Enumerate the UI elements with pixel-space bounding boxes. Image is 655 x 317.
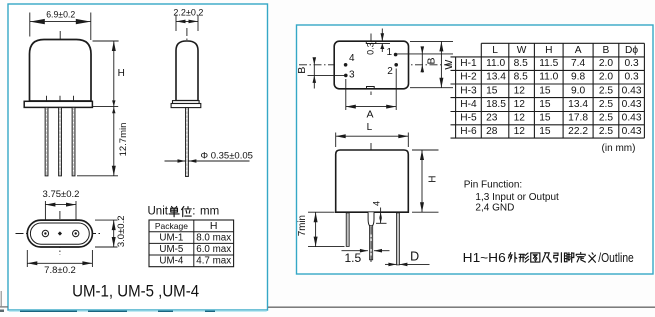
svg-text:1: 1 [387, 47, 393, 58]
can side view body [176, 41, 198, 101]
cropped next-section bar [9, 310, 267, 312]
svg-text:11.0: 11.0 [539, 72, 558, 83]
svg-text:UM-1: UM-1 [159, 232, 183, 243]
top view horizontal centerline [299, 64, 453, 66]
svg-text:12: 12 [514, 113, 526, 124]
side view lead [186, 108, 189, 177]
svg-text:9.8: 9.8 [571, 72, 585, 83]
dimension Φ0.35±0.05 lead diameter [165, 151, 253, 163]
top view vertical centerline [370, 34, 372, 96]
dimension 2.2±0.2 [173, 8, 203, 31]
svg-text:9.0: 9.0 [571, 85, 585, 96]
svg-text:23: 23 [486, 113, 498, 124]
top view top notch [366, 41, 376, 43]
table row H-6 [460, 126, 642, 137]
svg-text:8.5: 8.5 [514, 58, 528, 69]
svg-text:17.8: 17.8 [568, 113, 588, 124]
table row H-3 [460, 85, 642, 96]
dimension B right [397, 46, 453, 72]
side view flange lower [171, 104, 201, 108]
pin 3 [344, 70, 355, 81]
svg-text:1,3 Input or Output: 1,3 Input or Output [475, 192, 559, 203]
dimension 0.3 notch [365, 29, 390, 55]
svg-text:4: 4 [349, 53, 355, 64]
front view lead 1 [45, 107, 48, 175]
svg-text:18.5: 18.5 [486, 99, 506, 110]
svg-text:12.7min: 12.7min [118, 123, 129, 157]
svg-text:W: W [443, 60, 455, 70]
svg-text:0.43: 0.43 [622, 126, 642, 137]
page rule right [268, 306, 655, 308]
front view lead 2 [59, 107, 62, 175]
bottom view outer outline [27, 220, 92, 247]
svg-text:1.5: 1.5 [344, 251, 361, 265]
svg-text:15: 15 [486, 85, 498, 96]
svg-text:H: H [118, 68, 125, 79]
svg-text:0.3: 0.3 [625, 72, 639, 83]
svg-text::: : [192, 205, 195, 217]
svg-text:H: H [210, 220, 218, 232]
table row H-2 [460, 72, 639, 83]
pin 1 [387, 47, 398, 58]
svg-text:3: 3 [349, 70, 355, 81]
H1-H6 dimension table frame [451, 43, 645, 138]
bottom view inner outline [30, 223, 89, 244]
dimension 7min [297, 212, 345, 246]
front view lead 3 [72, 107, 75, 175]
unit label Unit单位: mm [148, 205, 220, 217]
svg-text:6.0 max: 6.0 max [196, 244, 231, 255]
right panel frame [297, 25, 654, 274]
pin function line 2 [475, 203, 514, 214]
dimension A [346, 69, 396, 121]
table row H-5 [460, 113, 642, 124]
svg-text:12: 12 [514, 85, 526, 96]
dimension 7.8±0.2 [27, 250, 92, 276]
svg-text:0.3: 0.3 [365, 42, 375, 55]
svg-text:(in mm): (in mm) [602, 143, 636, 154]
svg-text:D: D [410, 249, 419, 263]
svg-text:mm: mm [200, 205, 219, 217]
svg-text:3.75±0.2: 3.75±0.2 [43, 189, 80, 200]
pin function line 1 [475, 192, 559, 203]
svg-text:UM-4: UM-4 [159, 256, 183, 267]
table header row [492, 45, 638, 56]
svg-text:B: B [296, 67, 308, 74]
svg-text:6.9±0.2: 6.9±0.2 [46, 9, 75, 19]
package table row UM-5 [159, 244, 231, 255]
dimension 3.0±0.2 [95, 215, 127, 247]
svg-text:2.0: 2.0 [599, 72, 613, 83]
table row H-4 [460, 99, 642, 110]
svg-text:28: 28 [486, 126, 498, 137]
dimension D [385, 249, 430, 266]
svg-text:8.0 max: 8.0 max [196, 232, 231, 243]
svg-text:22.2: 22.2 [568, 126, 588, 137]
svg-text:15: 15 [539, 85, 551, 96]
svg-text:Package: Package [155, 221, 188, 231]
left panel frame [8, 4, 268, 310]
svg-text:12: 12 [514, 126, 526, 137]
svg-text:2.5: 2.5 [599, 85, 613, 96]
caption UM-1, UM-5 ,UM-4 [72, 281, 199, 300]
svg-text:L: L [492, 45, 498, 56]
dimension L [336, 122, 409, 147]
seal tube notch [368, 212, 374, 226]
svg-text:H: H [545, 45, 552, 56]
svg-text:H-5: H-5 [460, 113, 477, 124]
bottom view horizontal centerline [16, 233, 101, 235]
front view centerline [370, 143, 372, 262]
pin function heading [464, 180, 522, 191]
svg-text:2,4 GND: 2,4 GND [475, 203, 514, 214]
cropped text fragments [20, 311, 215, 312]
dimension 6.9±0.2 [30, 9, 91, 40]
svg-text:7.4: 7.4 [571, 58, 585, 69]
center stem [370, 226, 373, 260]
svg-text:L: L [367, 122, 373, 133]
dimension H right panel [412, 150, 439, 212]
bottom view hole 2 [73, 230, 79, 236]
page corner mark [0, 310, 4, 313]
svg-text:2: 2 [387, 66, 393, 77]
svg-text:2.2±0.2: 2.2±0.2 [173, 8, 203, 18]
can front view body [30, 40, 92, 102]
svg-text:H1~H6: H1~H6 [463, 251, 506, 265]
dimension 4 seal tube depth [371, 201, 386, 223]
svg-text:4.7 max: 4.7 max [196, 256, 231, 267]
side view flange upper [173, 101, 200, 104]
svg-text:2.5: 2.5 [599, 113, 613, 124]
svg-text:3.0±0.2: 3.0±0.2 [116, 215, 127, 247]
svg-text:15: 15 [539, 126, 551, 137]
package table header [155, 220, 218, 232]
svg-text:0.3: 0.3 [625, 58, 639, 69]
dimension 12.7min lead length [77, 106, 129, 175]
svg-text:2.0: 2.0 [599, 58, 613, 69]
svg-text:H-3: H-3 [460, 85, 477, 96]
dimension 1.5 [342, 249, 390, 265]
svg-text:0.43: 0.43 [622, 99, 642, 110]
svg-text:W: W [517, 45, 527, 56]
pin 4 [344, 53, 355, 67]
svg-text:13.4: 13.4 [486, 72, 506, 83]
svg-text:Pin Function:: Pin Function: [464, 180, 522, 191]
side view centerline [186, 28, 188, 113]
page rule left stub [0, 306, 8, 308]
svg-text:Φ 0.35±0.05: Φ 0.35±0.05 [201, 151, 253, 162]
package table frame [149, 220, 234, 267]
bottom view center mark [58, 231, 62, 235]
svg-text:0.43: 0.43 [622, 113, 642, 124]
svg-text:B: B [425, 57, 437, 64]
svg-text:B: B [603, 45, 610, 56]
svg-text:2.5: 2.5 [599, 99, 613, 110]
front view right lead [397, 213, 400, 265]
svg-text:15: 15 [539, 99, 551, 110]
front view left lead [346, 213, 349, 247]
table row H-1 [460, 58, 639, 69]
top view body [334, 41, 408, 89]
svg-text:13.4: 13.4 [568, 99, 588, 110]
svg-text:11.5: 11.5 [539, 58, 558, 69]
bottom view vertical centerline [59, 211, 61, 255]
caption H1~H6 outline title [463, 251, 634, 265]
top view bottom notch [367, 87, 375, 89]
can front view base flange [24, 101, 92, 107]
dimension W [410, 41, 455, 87]
svg-text:4: 4 [371, 201, 381, 206]
svg-text:0.43: 0.43 [622, 85, 642, 96]
svg-text:7.8±0.2: 7.8±0.2 [44, 265, 76, 276]
svg-text:H: H [428, 176, 439, 183]
front view pin hidden lines [47, 96, 74, 101]
svg-text:H-6: H-6 [460, 126, 477, 137]
package table row UM-1 [159, 232, 231, 243]
svg-text:2.5: 2.5 [599, 126, 613, 137]
dimension 3.75±0.2 [43, 189, 80, 231]
page edge vertical tick [0, 291, 2, 307]
dimension H (front view height) [93, 41, 125, 106]
pin 2 [387, 63, 398, 77]
svg-text:H-2: H-2 [460, 72, 477, 83]
svg-text:15: 15 [539, 113, 551, 124]
dimension B left [296, 57, 347, 88]
svg-text:UM-1, UM-5 ,UM-4: UM-1, UM-5 ,UM-4 [72, 281, 199, 300]
note (in mm) [602, 143, 636, 154]
svg-text:A: A [366, 108, 373, 120]
svg-text:UM-5: UM-5 [159, 244, 183, 255]
svg-text:/Outline: /Outline [598, 251, 634, 265]
package table row UM-4 [159, 256, 231, 267]
svg-text:H-1: H-1 [460, 58, 477, 69]
svg-text:A: A [575, 45, 582, 56]
svg-text:8.5: 8.5 [514, 72, 528, 83]
svg-text:Dϕ: Dϕ [625, 45, 638, 56]
bottom view hole 1 [42, 230, 48, 236]
can front view centerline [59, 31, 61, 114]
front view body [336, 150, 409, 212]
svg-text:12: 12 [514, 99, 526, 110]
svg-text:7min: 7min [297, 215, 308, 236]
svg-text:H-4: H-4 [460, 99, 477, 110]
svg-text:11.0: 11.0 [486, 58, 505, 69]
svg-text:Unit: Unit [148, 205, 169, 217]
